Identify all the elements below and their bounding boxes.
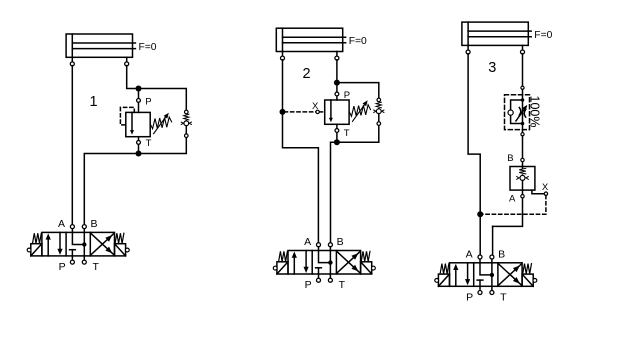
wire: sequence valve T down to bottom junction (circuit 2): [336, 124, 338, 142]
valve V2 right position: crossed flow arrows: [337, 252, 360, 273]
svg-text:P: P: [59, 261, 66, 273]
junction node below relief valve (circuit 1): [136, 151, 142, 157]
valve V1 left solenoid with manual override: [27, 244, 42, 256]
valve V1 port P node: [70, 256, 74, 264]
valve V2 label A: [304, 236, 311, 248]
valve V3 label P: [466, 292, 473, 304]
valve V2 port P node: [317, 274, 321, 282]
junction node above sequence valve (circuit 2): [334, 80, 340, 86]
valve V3 port T node: [490, 286, 494, 294]
valve V3 left return spring: [440, 264, 449, 274]
valve V3 port P node: [478, 286, 482, 294]
check valve (bypass, circuit 2) with spring: [374, 98, 384, 125]
svg-text:A: A: [509, 194, 516, 205]
valve V2 label T: [339, 279, 346, 291]
svg-text:T: T: [93, 261, 100, 273]
svg-text:1: 1: [90, 94, 98, 110]
svg-text:F=0: F=0: [349, 36, 367, 47]
circuit number label 3: [488, 60, 496, 76]
svg-text:T: T: [500, 292, 507, 304]
wire: cylinder rod-side port down to junction (circuit 2): [336, 60, 338, 83]
relief valve P port node (circuit 1): [137, 99, 141, 103]
pressure valve (circuit 2) setting spring: [349, 105, 370, 117]
svg-text:100%: 100%: [528, 96, 542, 128]
svg-text:T: T: [339, 279, 346, 291]
bypass junction dots (circuit 3): [521, 98, 525, 125]
pilot X port node (circuit 2): [316, 110, 319, 113]
valve V1 centre position: A-B-T joined, P blocked: [70, 232, 87, 256]
svg-text:P: P: [305, 279, 312, 291]
valve V3 centre position: A-B-T joined, P blocked: [477, 263, 494, 287]
flow control bottom port node (circuit 3): [521, 133, 524, 136]
relief valve label P (circuit 1): [145, 96, 151, 107]
sequence valve external pilot X (circuit 2, dashed): [284, 111, 324, 113]
svg-text:X: X: [312, 101, 319, 112]
pressure valve (circuit 1) body with flow arrow: [126, 112, 150, 136]
wire: bottom junction to check-valve branch bottom (circuit 2): [337, 125, 379, 142]
valve V1 label P: [59, 261, 66, 273]
counterbalance label X (circuit 3): [542, 182, 549, 193]
valve V1 left position: parallel flow arrows: [46, 232, 63, 256]
svg-text:F=0: F=0: [139, 42, 157, 53]
flow control valve enclosure (circuit 3, dashed): [505, 95, 530, 130]
valve V2 port A node: [317, 243, 321, 251]
flow control setting label 100%: [528, 96, 542, 128]
svg-text:P: P: [466, 292, 473, 304]
directional valve V3 body (3 positions): [450, 263, 523, 287]
svg-text:A: A: [58, 218, 65, 230]
pressure valve (circuit 1) adjustment arrow: [154, 113, 169, 134]
pilot line dashed horizontal to junction (circuit 3): [480, 213, 546, 215]
svg-text:B: B: [507, 153, 513, 164]
svg-text:X: X: [542, 182, 549, 193]
svg-text:B: B: [91, 218, 98, 230]
directional valve V1 body (3 positions): [42, 232, 115, 256]
counterbalance pilot elbow (circuit 3): [532, 190, 544, 194]
sequence valve P port node (circuit 2): [335, 92, 339, 96]
counterbalance label A (circuit 3): [509, 194, 516, 205]
valve V2 left solenoid with manual override: [273, 262, 288, 274]
valve V3 port B node: [490, 255, 494, 263]
valve V1 port A node: [70, 225, 74, 233]
svg-text:T: T: [344, 128, 350, 139]
valve V3 right solenoid with manual override: [522, 274, 537, 286]
counterbalance valve (circuit 3) body with spring-loaded poppet: [510, 167, 535, 191]
svg-text:F=0: F=0: [534, 30, 552, 41]
wire: junction to check-valve branch top (circuit 1): [139, 89, 187, 111]
valve V1 left return spring: [33, 233, 42, 243]
relief valve T port node (circuit 1): [137, 141, 141, 145]
valve V2 port T node: [328, 274, 332, 282]
svg-text:B: B: [337, 236, 344, 248]
svg-text:A: A: [304, 236, 311, 248]
cylinder (circuit 2) double-acting with rod, load label F=0: [276, 28, 367, 60]
junction node on cap-side line for pilot X (circuit 3): [477, 211, 483, 217]
valve V1 label A: [58, 218, 65, 230]
valve V3 right return spring: [523, 264, 532, 274]
wire: counterbalance A downward with jog to valve B (circuit 3): [493, 190, 523, 255]
svg-text:B: B: [498, 249, 505, 261]
wire: cylinder rod-side port to relief junction (circuit 1): [127, 66, 139, 89]
valve V3 right position: crossed flow arrows: [499, 264, 522, 285]
bypass check ball (circuit 3): [508, 110, 513, 115]
counterbalance pilot X node (circuit 3): [544, 192, 547, 195]
relief valve label T (circuit 1): [146, 138, 152, 149]
flow control main line with throttle (circuit 3): [522, 89, 524, 132]
wire: cylinder rod-side port down to flow control (circuit 3): [522, 54, 524, 86]
circuit number label 2: [303, 66, 311, 82]
pressure valve (circuit 2) adjustment arrow: [353, 100, 368, 121]
junction node below sequence valve (circuit 2): [334, 139, 340, 145]
throttle restriction arcs (circuit 3): [519, 108, 525, 118]
wire: cylinder cap-side port down, over to valve A (circuit 2): [283, 60, 319, 243]
counterbalance label B (circuit 3): [507, 153, 513, 164]
valve V3 label T: [500, 292, 507, 304]
svg-text:2: 2: [303, 66, 311, 82]
svg-text:A: A: [466, 249, 473, 261]
cylinder (circuit 1) double-acting with rod, load label F=0: [66, 34, 157, 66]
pilot label X (circuit 2): [312, 101, 319, 112]
bypass check line (circuit 3): [511, 100, 523, 124]
valve V1 right return spring: [115, 233, 124, 243]
pressure valve (circuit 1) setting spring: [150, 117, 171, 129]
wire: flow control to counterbalance valve B (circuit 3): [522, 136, 524, 167]
cylinder (circuit 3) double-acting with rod, load label F=0: [462, 22, 553, 54]
valve V2 centre position: A-B-T joined, P blocked: [316, 251, 333, 275]
junction node on cap-side line for pilot X (circuit 2): [280, 109, 286, 115]
wire: bottom junction to check-valve branch bottom (circuit 1): [139, 137, 187, 153]
valve V3 left position: parallel flow arrows: [453, 263, 470, 287]
valve V2 port B node: [328, 243, 332, 251]
valve V3 port A node: [478, 255, 482, 263]
wire: cylinder cap-side port down with jog (circuit 3): [468, 54, 480, 255]
circuit number label 1: [90, 94, 98, 110]
valve V2 right solenoid with manual override: [361, 262, 376, 274]
valve V2 right return spring: [361, 251, 370, 261]
sequence valve T port node (circuit 2): [335, 129, 339, 133]
wire: junction down to relief valve P (circuit 1): [138, 89, 140, 113]
flow control valve top port node (circuit 3): [521, 86, 524, 89]
svg-text:P: P: [145, 96, 151, 107]
valve V3 label A: [466, 249, 473, 261]
junction node above relief valve (circuit 1): [136, 86, 142, 92]
wire: junction to check-valve branch top (circuit 2): [337, 83, 379, 99]
wire: relief valve T down to bottom junction (circuit 1): [138, 137, 140, 154]
valve V2 left position: parallel flow arrows: [292, 251, 309, 275]
throttle adjustment arrow (circuit 3): [516, 105, 527, 121]
wire: bottom junction to valve B (circuit 1): [84, 154, 138, 226]
valve V2 label P: [305, 279, 312, 291]
valve V3 label B: [498, 249, 505, 261]
valve V1 label T: [93, 261, 100, 273]
valve V1 right solenoid with manual override: [115, 244, 130, 256]
svg-text:3: 3: [488, 60, 496, 76]
wire: bottom junction jog to valve B (circuit 2): [331, 142, 337, 243]
counterbalance valve B port node (circuit 3): [521, 158, 524, 161]
wire: junction down to sequence valve P (circuit 2): [336, 83, 338, 100]
wire: cylinder cap-side port down to valve A (circuit 1): [71, 66, 73, 226]
pilot line dashed vertical (circuit 3): [545, 195, 547, 214]
valve V1 port B node: [82, 225, 86, 233]
svg-text:T: T: [146, 138, 152, 149]
valve V2 label B: [337, 236, 344, 248]
relief valve internal pilot line (circuit 1, dashed): [120, 107, 134, 125]
sequence valve label P (circuit 2): [344, 90, 350, 101]
sequence valve label T (circuit 2): [344, 128, 350, 139]
counterbalance A port node (circuit 3): [521, 195, 524, 198]
valve V1 port T node: [82, 256, 86, 264]
valve V1 right position: crossed flow arrows: [91, 234, 114, 255]
directional valve V2 body (3 positions): [288, 251, 361, 275]
valve V1 label B: [91, 218, 98, 230]
check valve (bypass, circuit 1) with spring: [181, 110, 191, 137]
valve V3 left solenoid with manual override: [435, 274, 450, 286]
valve V2 left return spring: [279, 251, 288, 261]
pressure valve (circuit 2) body with flow arrow: [325, 100, 349, 124]
